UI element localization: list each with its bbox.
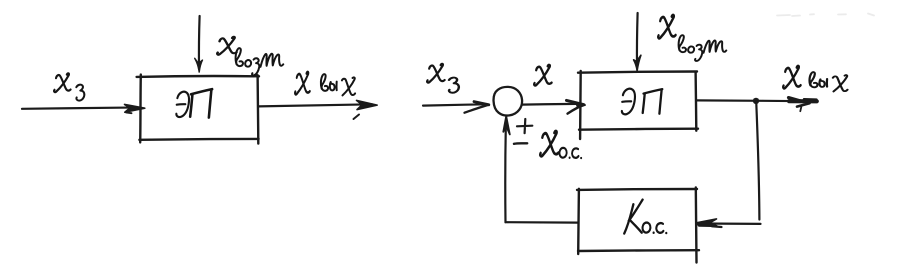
node: label x_вых (left): [295, 72, 355, 95]
arrowhead into K box (pointing left), heavy: [697, 219, 718, 226]
label К о.с.: [624, 200, 667, 235]
node: label x_о.с.: [540, 131, 582, 159]
wire: feedback vertical up to circle: [504, 121, 507, 222]
wire: output line (left): [259, 104, 373, 106]
arrowhead output (right), heavy filled: [789, 99, 817, 103]
node: label x (between circle and block): [534, 65, 551, 86]
block K o.c. box: [577, 188, 699, 263]
faint pencil smudges top right: [777, 14, 874, 17]
minus sign at summing junction: [514, 142, 527, 145]
arrowhead input left diagram: [125, 104, 145, 112]
arrowhead up into circle: [503, 116, 510, 134]
arrowhead output (left): [357, 100, 378, 109]
block ЭП (left) box: [137, 75, 259, 144]
node: label x_з (right): [427, 64, 459, 93]
label ЭП (left): [176, 89, 212, 117]
stray pen tick below output arrow (left): [354, 115, 360, 120]
node: label x_з (left): [54, 73, 84, 100]
wire: disturbance arrow down (left): [198, 16, 201, 69]
wire: circle to block: [522, 103, 577, 106]
extra pen stroke under arrowhead (right input): [465, 105, 489, 113]
wire: input line left diagram: [22, 108, 137, 109]
arrowhead disturbance (right): [634, 55, 641, 71]
node: label x_вых (right): [783, 66, 847, 92]
arrowhead into block (right): [567, 100, 584, 104]
node: label x_возм (left): [217, 37, 283, 76]
wire: output line (right): [697, 99, 807, 102]
junction dot on output: [753, 98, 759, 104]
arrowhead disturbance (left): [195, 58, 203, 72]
wire: feedback horizontal into K box: [699, 222, 761, 225]
wire: feedback horizontal left of K box: [506, 221, 579, 224]
node: label x_возм (right): [658, 15, 726, 61]
wire: input line (right): [423, 104, 486, 105]
wire: feedback vertical right: [756, 101, 759, 220]
block ЭП (right) box: [578, 71, 698, 139]
arrowhead input (right): [474, 102, 489, 105]
plus sign at summing junction: [517, 119, 532, 133]
wire: disturbance arrow down (right): [636, 13, 639, 65]
label ЭП (right): [622, 89, 662, 115]
summing junction circle: [494, 87, 523, 116]
